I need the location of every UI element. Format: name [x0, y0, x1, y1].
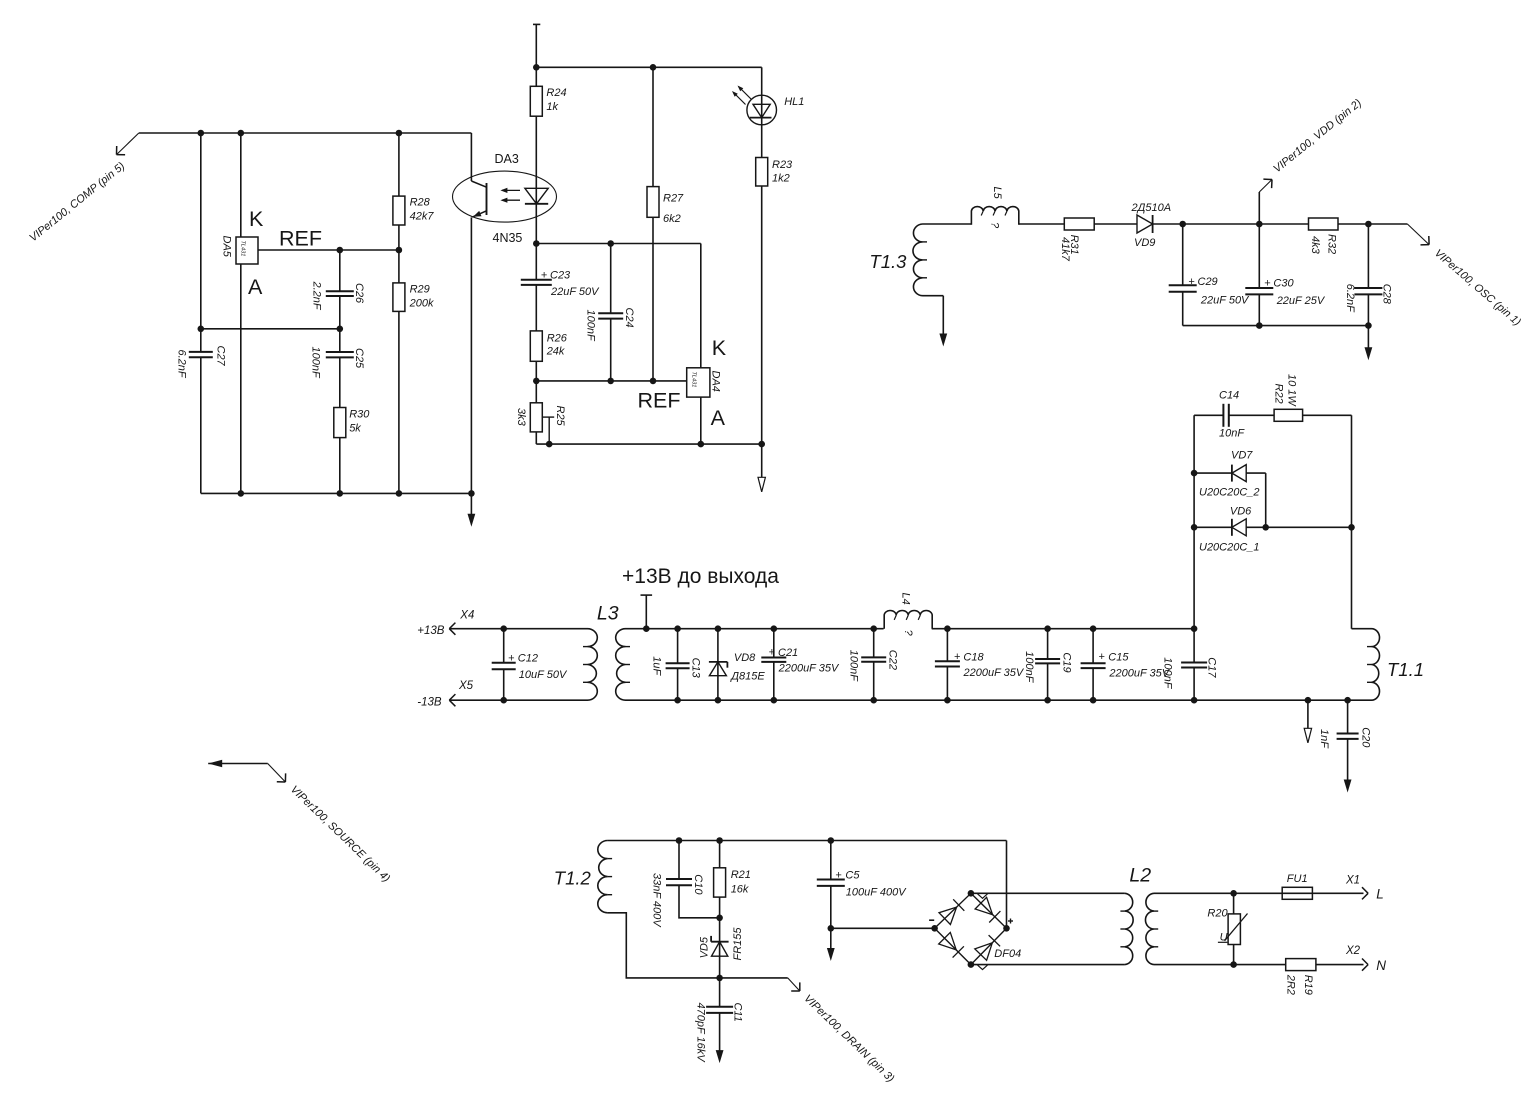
pin arrow VIPer100 DRAIN (pin 3)	[788, 978, 897, 1085]
svg-text:C30: C30	[1273, 278, 1294, 290]
svg-text:X1: X1	[1345, 875, 1360, 887]
svg-text:U20C20C_2: U20C20C_2	[1199, 487, 1260, 499]
wire L2 to line terminals bottom	[1154, 964, 1286, 966]
svg-text:100uF 400V: 100uF 400V	[846, 887, 907, 899]
svg-text:R27: R27	[663, 193, 684, 205]
pin arrow X2 N	[1345, 945, 1386, 973]
svg-text:41k7: 41k7	[1059, 237, 1071, 262]
junction dots feedback section	[198, 130, 475, 497]
wire VD7 to VD6 vertical	[1265, 473, 1267, 527]
svg-text:R26: R26	[547, 333, 568, 345]
wire L5 to R31	[1019, 223, 1065, 225]
transformer winding L3 right	[597, 603, 630, 701]
svg-text:R21: R21	[731, 869, 751, 881]
svg-text:C21: C21	[778, 647, 798, 659]
svg-text:R28: R28	[410, 197, 431, 209]
wire drain net	[720, 977, 788, 979]
capacitor C21	[761, 629, 840, 701]
svg-text:6k2: 6k2	[663, 213, 681, 225]
wire snubber right vertical	[1351, 415, 1353, 628]
svg-text:6.2nF: 6.2nF	[175, 350, 187, 379]
svg-text:C20: C20	[1360, 727, 1372, 748]
svg-text:C18: C18	[963, 652, 984, 664]
svg-text:X4: X4	[459, 610, 474, 622]
svg-text:L3: L3	[597, 603, 619, 625]
svg-text:2200uF 35V: 2200uF 35V	[778, 663, 840, 675]
wire top rail of feedback section	[139, 132, 472, 134]
opto LED	[525, 188, 548, 204]
svg-text:FU1: FU1	[1287, 873, 1308, 885]
resistor R31	[1059, 218, 1094, 262]
svg-text:10uF 50V: 10uF 50V	[519, 669, 568, 681]
capacitor C22	[847, 629, 898, 701]
svg-text:VD8: VD8	[734, 652, 756, 664]
svg-text:+: +	[541, 270, 548, 282]
svg-text:VD7: VD7	[1231, 450, 1253, 462]
bridge diode bottom-right	[975, 935, 1000, 960]
svg-text:C10: C10	[692, 874, 704, 895]
svg-text:R30: R30	[349, 409, 370, 421]
wire snubber top left	[1194, 414, 1223, 416]
svg-text:100nF: 100nF	[309, 347, 321, 379]
wire top rail primary	[679, 840, 1007, 842]
capacitor C18	[935, 629, 1025, 701]
pin arrow X5 -13V	[417, 680, 503, 709]
svg-text:C25: C25	[353, 348, 365, 369]
svg-text:DA3: DA3	[495, 152, 519, 166]
svg-text:T1.3: T1.3	[869, 251, 907, 272]
svg-text:2200uF 35V: 2200uF 35V	[963, 667, 1025, 679]
junction dots opto section	[533, 64, 765, 447]
wire L2 to line terminals top	[1154, 892, 1364, 894]
wire C14 to R22	[1229, 414, 1274, 416]
wire R32 to OSC corner	[1338, 223, 1407, 225]
zener diode VD8 D815E	[709, 629, 765, 701]
svg-text:K: K	[712, 336, 727, 360]
capacitor C28	[1344, 224, 1392, 326]
svg-text:2200uF 35V: 2200uF 35V	[1108, 668, 1170, 680]
wire R22 to right corner	[1303, 414, 1352, 416]
capacitor C5	[817, 841, 907, 929]
svg-text:24k: 24k	[546, 346, 565, 358]
svg-text:L: L	[1376, 887, 1384, 902]
svg-text:+: +	[954, 651, 961, 663]
svg-text:3k3: 3k3	[515, 408, 527, 427]
svg-text:DA4: DA4	[709, 371, 721, 392]
transformer winding T1.3	[869, 224, 927, 296]
svg-text:C29: C29	[1198, 276, 1218, 288]
bridge diode top-left	[939, 899, 964, 924]
pin arrow VIPer100 COMP (pin 5)	[27, 146, 127, 244]
capacitor C13	[651, 629, 702, 701]
svg-text:4N35: 4N35	[493, 231, 523, 245]
svg-text:VD9: VD9	[1134, 237, 1155, 249]
svg-text:+: +	[1264, 278, 1271, 290]
svg-text:22uF 50V: 22uF 50V	[1200, 295, 1250, 307]
wire C27 branch vertical	[200, 133, 202, 493]
svg-text:C13: C13	[690, 658, 702, 679]
wire opto emitter-LED bottom rail	[536, 243, 701, 245]
diode VD6 U20C20C_1	[1194, 506, 1351, 554]
svg-text:REF: REF	[638, 389, 681, 413]
wire bridge bottom to L2	[971, 964, 1125, 966]
resistor R29	[393, 250, 434, 493]
wire T1.2 bottom lead	[608, 913, 720, 978]
svg-text:100nF: 100nF	[847, 650, 859, 682]
diode VD7 U20C20C_2	[1194, 450, 1266, 499]
wire DA4 anode vertical	[700, 397, 702, 444]
svg-text:L5: L5	[991, 187, 1003, 200]
pin arrow VIPer100 OSC (pin 1)	[1407, 224, 1523, 329]
svg-text:10 1W: 10 1W	[1286, 374, 1298, 407]
svg-text:A: A	[711, 406, 726, 430]
opto transistor	[471, 133, 486, 493]
svg-text:16k: 16k	[731, 884, 749, 896]
svg-text:L2: L2	[1129, 865, 1151, 887]
capacitor C12	[492, 629, 568, 701]
wire COMP diagonal lead	[117, 133, 139, 155]
inductor L4	[884, 593, 932, 637]
terminal stub top	[533, 24, 540, 67]
wire DA4 cathode vertical	[700, 244, 702, 368]
wire top rail corner to bridge plus	[1006, 841, 1008, 929]
pin arrow X4 +13V	[417, 610, 503, 638]
svg-text:X5: X5	[458, 680, 474, 692]
varistor R20	[1207, 893, 1247, 964]
capacitor C27	[175, 346, 226, 379]
svg-text:R25: R25	[554, 406, 566, 427]
svg-text:C27: C27	[214, 346, 226, 367]
svg-text:R29: R29	[410, 284, 430, 296]
svg-text:1uF: 1uF	[651, 656, 663, 676]
capacitor C19	[1023, 629, 1073, 701]
transformer winding T1.1	[1352, 629, 1425, 701]
node REF label right	[638, 389, 681, 413]
zener diode VD5 FR155	[699, 918, 745, 978]
wire bridge top to L2	[971, 892, 1125, 894]
svg-text:HL1: HL1	[784, 96, 804, 108]
svg-text:?: ?	[988, 222, 1000, 229]
svg-text:X2: X2	[1345, 945, 1361, 957]
pin arrow X1 L	[1345, 875, 1384, 902]
svg-text:+: +	[769, 647, 776, 659]
svg-text:U20C20C_1: U20C20C_1	[1199, 542, 1260, 554]
svg-text:R19: R19	[1302, 975, 1314, 995]
svg-text:-13В: -13В	[417, 697, 442, 709]
svg-text:C26: C26	[353, 283, 365, 304]
wire REF net left	[258, 249, 399, 251]
wire filter top rail B	[932, 628, 1194, 630]
svg-text:U: U	[1220, 931, 1228, 943]
transformer winding T1.2	[554, 841, 612, 913]
svg-text:22uF 50V: 22uF 50V	[550, 286, 600, 298]
resistor R28	[393, 133, 434, 250]
ground arrow open output	[1304, 700, 1311, 743]
svg-text:+: +	[1188, 276, 1195, 288]
svg-text:TL431: TL431	[690, 372, 696, 388]
svg-text:C15: C15	[1108, 652, 1129, 664]
ground arrow opto section open	[758, 444, 765, 492]
inductor L2 left winding	[1120, 893, 1133, 964]
wire filter bottom rail	[626, 699, 1372, 701]
diode VD9 2D510A	[1131, 202, 1172, 249]
svg-text:+: +	[835, 870, 842, 882]
wire LED anode vertical	[535, 116, 537, 243]
svg-text:+13В до выхода: +13В до выхода	[622, 565, 779, 588]
wire bottom rail opto section	[536, 443, 761, 445]
resistor R30	[334, 408, 370, 494]
svg-text:2.2nF: 2.2nF	[311, 281, 323, 311]
svg-text:K: K	[249, 207, 264, 231]
capacitor C26	[311, 250, 365, 329]
wire filter top rail A	[626, 628, 884, 630]
svg-text:1nF: 1nF	[1318, 729, 1330, 749]
capacitor C11	[694, 978, 743, 1063]
optocoupler DA3 4N35	[453, 152, 557, 245]
svg-text:C14: C14	[1219, 390, 1239, 402]
inductor L2 right winding	[1129, 865, 1158, 965]
svg-text:FR155: FR155	[732, 927, 744, 961]
svg-text:2Д510A: 2Д510A	[1131, 202, 1172, 214]
fuse FU1	[1282, 873, 1312, 899]
wire R31 to VD9	[1094, 223, 1137, 225]
svg-text:33nF 400V: 33nF 400V	[651, 873, 663, 928]
svg-text:6.2nF: 6.2nF	[1344, 284, 1356, 313]
transformer winding L3 left	[583, 629, 597, 701]
ground arrow VDD section	[1365, 326, 1373, 361]
wire T1.2 top lead	[608, 840, 679, 842]
capacitor C29	[1169, 224, 1250, 326]
svg-text:5k: 5k	[349, 423, 361, 435]
svg-text:L4: L4	[899, 593, 911, 605]
svg-text:C19: C19	[1061, 652, 1073, 672]
capacitor C30	[1245, 224, 1326, 326]
resistor R24	[530, 67, 566, 116]
svg-text:C28: C28	[1380, 284, 1392, 305]
capacitor C24	[584, 244, 635, 381]
svg-text:T1.1: T1.1	[1387, 659, 1424, 680]
junction dots VDD section	[1179, 221, 1371, 329]
wire C27 to C26 junction	[201, 328, 340, 330]
resistor R22	[1272, 374, 1302, 421]
wire VD9 to VDD node	[1153, 223, 1260, 225]
svg-text:10nF: 10nF	[1219, 428, 1245, 440]
trimmer R25	[515, 381, 566, 444]
svg-text:VD6: VD6	[1230, 506, 1252, 518]
svg-text:4k3: 4k3	[1309, 236, 1321, 255]
bridge diode bottom-left	[939, 932, 964, 957]
svg-text:Д815E: Д815E	[729, 671, 765, 683]
svg-text:+: +	[1098, 651, 1105, 663]
svg-text:N: N	[1376, 958, 1386, 973]
svg-text:1k: 1k	[546, 101, 558, 113]
svg-text:R24: R24	[546, 87, 566, 99]
resistor R26	[530, 331, 567, 381]
capacitor C20	[1318, 700, 1372, 792]
capacitor C23	[521, 244, 600, 331]
svg-text:100nF: 100nF	[584, 310, 596, 342]
resistor R19	[1284, 959, 1363, 995]
svg-text:100nF: 100nF	[1023, 651, 1035, 683]
svg-text:T1.2: T1.2	[554, 868, 592, 889]
svg-text:C22: C22	[886, 650, 898, 670]
svg-text:DF04: DF04	[994, 948, 1021, 960]
svg-text:R32: R32	[1325, 234, 1337, 254]
wire REF net right	[536, 380, 686, 382]
wire top rail opto section	[536, 66, 761, 68]
LED HL1	[732, 67, 804, 157]
svg-text:VD5: VD5	[699, 936, 711, 958]
resistor R23	[756, 158, 793, 445]
svg-text:100nF: 100nF	[1162, 657, 1174, 689]
capacitor C10	[651, 841, 720, 929]
svg-text:A: A	[248, 275, 263, 299]
svg-text:C12: C12	[518, 653, 538, 665]
capacitor C17	[1162, 629, 1218, 701]
ground arrow C5	[827, 928, 835, 961]
ground arrow T1.3	[923, 296, 948, 347]
svg-text:C17: C17	[1206, 657, 1218, 678]
label L3 output net +13V	[622, 565, 779, 629]
svg-text:?: ?	[902, 630, 914, 637]
bridge rectifier DF04	[929, 893, 1021, 964]
bridge diode top-right	[975, 897, 1000, 922]
ground arrow left section	[468, 493, 476, 526]
pin arrow VIPer100 VDD (pin 2)	[1259, 97, 1364, 224]
wire snubber left vertical	[1193, 415, 1195, 628]
junction dots snubber	[1191, 470, 1355, 531]
shunt regulator DA4 TL431	[687, 336, 727, 430]
wire VDD node to R32	[1259, 223, 1308, 225]
svg-text:+13В: +13В	[417, 625, 445, 637]
wire DA5 branch vertical	[240, 133, 242, 493]
svg-text:REF: REF	[279, 227, 322, 251]
svg-text:1k2: 1k2	[772, 173, 790, 185]
bridge AC mark bottom	[978, 965, 988, 970]
svg-text:470pF 16kV: 470pF 16kV	[694, 1003, 706, 1064]
resistor R21	[714, 841, 751, 918]
inductor L5	[971, 187, 1018, 230]
wire X4 rail to L3	[504, 628, 588, 630]
svg-text:R20: R20	[1207, 908, 1228, 920]
wire T1.3 top lead	[923, 223, 972, 225]
svg-text:+: +	[508, 653, 515, 665]
svg-text:2R2: 2R2	[1284, 974, 1296, 995]
svg-text:C23: C23	[550, 270, 571, 282]
shunt regulator DA5 TL431	[220, 207, 264, 299]
wire bottom rail VDD section	[1183, 325, 1369, 327]
wire X5 rail to L3	[504, 699, 588, 701]
pin arrow VIPer100 SOURCE (pin 4)	[208, 760, 392, 885]
resistor R32	[1309, 218, 1339, 255]
svg-text:DA5: DA5	[220, 236, 232, 258]
svg-text:200k: 200k	[409, 298, 434, 310]
svg-text:C5: C5	[845, 870, 860, 882]
wire C5 to bridge minus	[831, 927, 935, 929]
capacitor C25	[309, 329, 364, 408]
svg-text:22uF 25V: 22uF 25V	[1276, 295, 1326, 307]
capacitor C14	[1219, 390, 1245, 440]
svg-text:R23: R23	[772, 159, 793, 171]
node REF label left	[279, 227, 322, 251]
bridge AC mark top	[978, 894, 988, 899]
svg-text:C24: C24	[623, 308, 635, 328]
opto light arrows	[500, 188, 520, 203]
wire bottom rail of feedback section	[201, 492, 472, 494]
svg-text:TL431: TL431	[240, 241, 246, 257]
svg-text:42k7: 42k7	[410, 211, 435, 223]
svg-text:C11: C11	[731, 1003, 743, 1022]
svg-text:R22: R22	[1272, 384, 1284, 404]
junction dots filter row	[500, 625, 1350, 703]
resistor R27	[647, 67, 684, 381]
junction dots primary section	[676, 837, 1237, 981]
capacitor C15	[1081, 629, 1171, 701]
